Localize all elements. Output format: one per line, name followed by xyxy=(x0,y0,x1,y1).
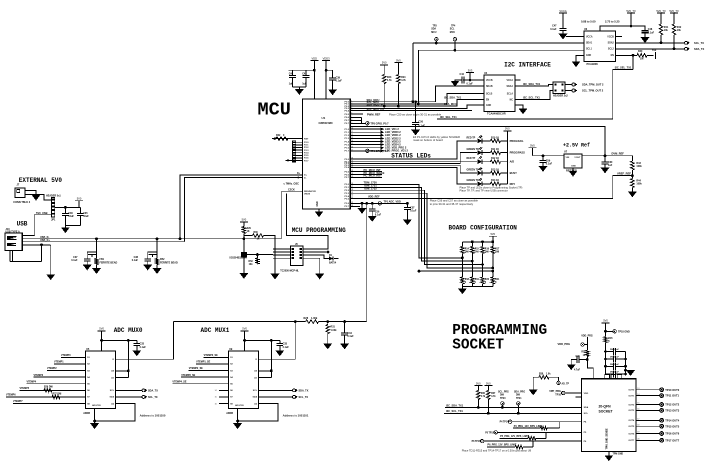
svg-text:TP12 OUT2: TP12 OUT2 xyxy=(665,403,679,407)
svg-text:OUT1: OUT1 xyxy=(628,395,635,397)
junction xyxy=(179,237,182,240)
junction xyxy=(365,202,368,205)
wire cap rail bottom xyxy=(293,86,307,88)
svg-text:SCL_MCU_PU: SCL_MCU_PU xyxy=(367,107,385,111)
svg-text:SCL_TX: SCL_TX xyxy=(694,41,704,45)
svg-text:0.1uF: 0.1uF xyxy=(347,335,354,338)
wire OUT3 xyxy=(636,409,659,411)
wire USB VBUS xyxy=(22,235,35,237)
wire xyxy=(397,84,399,107)
svg-text:R15: R15 xyxy=(475,248,480,250)
svg-text:VTEMP3: VTEMP3 xyxy=(34,374,44,377)
wire xyxy=(482,152,490,154)
wire xyxy=(86,252,88,259)
wire LED row4 feed xyxy=(350,165,477,173)
svg-text:P3.6: P3.6 xyxy=(345,203,350,205)
wire GND pin xyxy=(237,409,239,424)
resistor R42 xyxy=(672,24,676,35)
svg-text:P3.7: P3.7 xyxy=(345,206,350,208)
wire xyxy=(523,446,533,448)
svg-text:to pins 30-31 and 35-37 respec: to pins 30-31 and 35-37 respectively xyxy=(430,202,474,206)
wire xyxy=(64,215,66,225)
wire xyxy=(547,427,560,429)
svg-text:C40: C40 xyxy=(289,72,294,75)
wire xyxy=(631,170,633,176)
capacitor C37 xyxy=(84,259,91,261)
wire OUT0 xyxy=(636,389,659,391)
junction xyxy=(604,350,607,353)
svg-text:VBUS: VBUS xyxy=(304,193,311,195)
wire xyxy=(660,35,662,43)
ground xyxy=(368,216,376,221)
wire VTEMP6 xyxy=(6,396,86,398)
svg-text:9: 9 xyxy=(351,122,352,124)
junction xyxy=(604,154,607,157)
svg-text:SDA: SDA xyxy=(109,396,114,399)
wire xyxy=(406,209,408,219)
svg-text:SCL2: SCL2 xyxy=(608,49,615,51)
svg-text:TP16 OUT6: TP16 OUT6 xyxy=(665,432,679,436)
svg-text:5V0: 5V0 xyxy=(242,327,247,331)
junction xyxy=(327,251,330,254)
wire ADC_VREF vertical xyxy=(366,203,368,321)
wire VTEMP5 xyxy=(20,389,86,391)
level shifter U6 body xyxy=(584,31,616,62)
LED D6 xyxy=(478,178,483,186)
svg-text:c 7MHz_OSC: c 7MHz_OSC xyxy=(284,183,300,186)
resistor R17 xyxy=(491,247,495,254)
svg-text:RDY: RDY xyxy=(510,182,516,186)
wire U7 VOUT xyxy=(582,155,632,157)
svg-text:SCL_PRG: SCL_PRG xyxy=(498,391,509,393)
wire VTEMP1 xyxy=(54,363,86,365)
wire A0 xyxy=(116,370,129,372)
wire xyxy=(292,78,294,87)
junction xyxy=(243,339,246,342)
wire to C46 xyxy=(579,359,588,361)
test point TP21 xyxy=(517,402,520,405)
svg-text:25: 25 xyxy=(351,176,353,178)
junction xyxy=(406,202,409,205)
capacitor C60 xyxy=(602,162,609,164)
off-page SDA_TX xyxy=(293,389,298,392)
junction xyxy=(673,47,676,50)
wire xyxy=(371,211,373,216)
svg-text:5V0: 5V0 xyxy=(490,232,495,236)
wire VREF_REF xyxy=(350,176,632,199)
svg-text:1K: 1K xyxy=(247,231,250,233)
wire xyxy=(562,30,564,34)
wire xyxy=(487,446,515,448)
U9 pin names xyxy=(230,357,258,407)
svg-text:27: 27 xyxy=(351,186,353,188)
svg-text:R29: R29 xyxy=(247,228,252,230)
svg-text:DNI 0.1uF: DNI 0.1uF xyxy=(610,349,620,351)
svg-text:DNI: DNI xyxy=(500,395,504,397)
wire to cap xyxy=(245,339,280,341)
wire xyxy=(660,17,662,24)
wire EN down xyxy=(632,55,634,69)
svg-text:8: 8 xyxy=(351,119,352,121)
svg-text:ADG728: ADG728 xyxy=(92,404,101,407)
wire xyxy=(542,162,544,166)
svg-text:TCA9406DCUR: TCA9406DCUR xyxy=(487,112,506,116)
svg-text:C44: C44 xyxy=(460,73,465,76)
resistor R32 xyxy=(256,258,260,264)
off-page SDA_TPM_OUT xyxy=(572,83,577,86)
ground xyxy=(47,275,55,280)
wire ladder pin xyxy=(296,149,303,151)
svg-text:FERRITE BEAD: FERRITE BEAD xyxy=(100,261,118,264)
svg-text:16: 16 xyxy=(637,409,639,411)
wire shield riser xyxy=(41,245,43,262)
wire cap rail xyxy=(55,206,81,208)
wire xyxy=(156,252,158,259)
svg-text:SOCKET: SOCKET xyxy=(599,410,614,414)
junction xyxy=(471,240,474,243)
junction xyxy=(487,412,490,415)
wire USB D+ rail xyxy=(22,241,184,243)
wire xyxy=(517,405,519,413)
svg-text:0.1uF: 0.1uF xyxy=(375,214,382,217)
svg-text:14: 14 xyxy=(637,394,639,396)
svg-text:P1.0: P1.0 xyxy=(345,129,350,131)
wire xyxy=(65,224,80,226)
wire xyxy=(469,77,471,81)
svg-text:VTEMP4_SE: VTEMP4_SE xyxy=(172,380,186,383)
wire shield xyxy=(12,250,14,261)
svg-text:P3.5: P3.5 xyxy=(345,198,350,200)
svg-text:SDA_MCU: SDA_MCU xyxy=(444,102,457,106)
LED D5 xyxy=(478,168,483,176)
junction xyxy=(397,105,400,108)
wire xyxy=(482,161,490,163)
off-page SCL_TPM_OUT xyxy=(572,89,577,92)
svg-text:SDA_PRG: SDA_PRG xyxy=(514,390,525,393)
svg-text:OUT0: OUT0 xyxy=(628,390,635,392)
test point TP14 xyxy=(508,420,511,423)
wire U6 EN xyxy=(616,54,637,56)
svg-text:17: 17 xyxy=(637,419,639,421)
bus entry LED_VDD1 xyxy=(381,134,385,137)
junction xyxy=(469,79,472,82)
junction xyxy=(418,270,421,273)
wire xyxy=(461,284,463,286)
wire board config net xyxy=(350,190,482,264)
wire xyxy=(303,258,320,274)
svg-text:TPM_GND_SENSE: TPM_GND_SENSE xyxy=(606,428,609,450)
ground xyxy=(559,34,567,39)
wire xyxy=(606,351,614,353)
wire xyxy=(96,239,98,252)
diode D1 xyxy=(329,256,333,260)
capacitor C44 xyxy=(462,77,464,84)
wire MUX1 out xyxy=(259,322,296,360)
svg-text:MCU: MCU xyxy=(431,32,437,34)
junction xyxy=(624,369,627,372)
svg-text:0.1uF: 0.1uF xyxy=(467,83,474,86)
wire board config net xyxy=(350,187,472,261)
svg-text:P4_PRG_12V_BPS_LIMIT: P4_PRG_12V_BPS_LIMIT xyxy=(514,425,543,428)
test point OUT6 xyxy=(660,432,664,436)
svg-text:EN: EN xyxy=(611,55,615,57)
wire stub PC_MCU_RST xyxy=(350,176,382,178)
wire stub PWM_REF xyxy=(350,113,363,115)
svg-text:R16: R16 xyxy=(485,248,490,250)
resistor P6 limit xyxy=(515,445,523,449)
svg-text:20-QFN: 20-QFN xyxy=(599,405,612,409)
svg-text:5V0: 5V0 xyxy=(603,319,608,323)
wire xyxy=(531,152,533,156)
wire xyxy=(461,286,463,288)
svg-text:P6_PRG_12V_BPS_LIMIT: P6_PRG_12V_BPS_LIMIT xyxy=(488,444,517,447)
wire U7 VIN xyxy=(532,155,564,157)
wire I2C_SDA_PRG xyxy=(445,406,582,408)
off-page SCL_TX xyxy=(685,41,690,44)
svg-text:I2C_SEL_TX1: I2C_SEL_TX1 xyxy=(615,65,632,69)
wire stub LED_VDD4 xyxy=(350,144,380,146)
svg-text:OUT5: OUT5 xyxy=(628,426,635,428)
wire xyxy=(471,254,473,278)
svg-text:P1.4: P1.4 xyxy=(345,140,350,143)
wire Q1 out xyxy=(248,254,273,256)
U4 pin names xyxy=(486,79,513,107)
svg-text:I2C_SDA_TX1: I2C_SDA_TX1 xyxy=(523,82,541,86)
wire xyxy=(616,373,626,375)
junction xyxy=(95,237,98,240)
test point TP10 xyxy=(562,391,565,394)
wire SDA_TX xyxy=(616,48,685,50)
wire xyxy=(492,242,494,247)
svg-text:5V0_TX: 5V0_TX xyxy=(669,9,679,13)
connector pin xyxy=(293,147,296,149)
wire I2C_SCL_TX1 xyxy=(515,91,553,100)
svg-text:SCLB: SCLB xyxy=(486,93,493,95)
junction xyxy=(481,240,484,243)
svg-text:TPM GND: TPM GND xyxy=(613,454,624,456)
svg-text:16: 16 xyxy=(215,403,217,405)
svg-text:0.1uF: 0.1uF xyxy=(648,32,655,35)
svg-text:VTEMP2: VTEMP2 xyxy=(47,367,57,370)
svg-text:32: 32 xyxy=(351,202,353,204)
svg-text:P2.4: P2.4 xyxy=(304,152,309,155)
svg-text:P3.0: P3.0 xyxy=(345,184,350,186)
svg-text:R35: R35 xyxy=(581,352,586,354)
wire SDA_MCU riser xyxy=(412,43,414,102)
power 5V0 xyxy=(240,218,248,226)
ground xyxy=(153,268,161,273)
svg-text:I2C_SEL_TX1: I2C_SEL_TX1 xyxy=(440,115,457,119)
voltage reference U7 body xyxy=(564,154,582,168)
resistor R40 xyxy=(637,54,647,58)
wire stub P0.4 xyxy=(350,110,472,112)
svg-text:R13 1K: R13 1K xyxy=(491,168,499,171)
wire A1 xyxy=(259,377,272,379)
ground xyxy=(133,351,141,356)
svg-text:SDA_TX: SDA_TX xyxy=(299,389,309,392)
bus entry LED_VDD3 xyxy=(381,140,385,143)
wire xyxy=(501,405,503,407)
capacitor C50 DNI xyxy=(614,363,616,370)
ground xyxy=(412,130,420,135)
wire xyxy=(532,377,534,390)
wire DNI right rail xyxy=(625,352,627,375)
bus entry LED_PROG_VD1 xyxy=(381,149,385,152)
ground xyxy=(451,81,459,86)
wire xyxy=(565,90,572,92)
wire xyxy=(565,84,572,86)
wire xyxy=(362,122,366,124)
svg-text:R28: R28 xyxy=(304,317,309,320)
wire ladder out xyxy=(285,159,292,161)
wire VTEMP4 xyxy=(27,383,86,385)
wire xyxy=(647,54,654,56)
svg-text:VTEMP0: VTEMP0 xyxy=(61,354,71,357)
svg-text:1uF: 1uF xyxy=(608,164,613,167)
svg-text:24: 24 xyxy=(351,173,353,175)
capacitor C38 xyxy=(144,259,151,261)
svg-text:R45: R45 xyxy=(608,337,613,340)
resistor R37 xyxy=(487,391,491,400)
wire VTEMP7 xyxy=(13,403,86,405)
resistor R23 xyxy=(382,75,386,84)
wire VDD3 to U1 xyxy=(325,65,327,99)
svg-text:5V0: 5V0 xyxy=(77,197,82,201)
svg-text:C8051F380: C8051F380 xyxy=(319,121,334,125)
wire xyxy=(344,322,346,333)
svg-text:ADDR: ADDR xyxy=(226,412,233,415)
wire xyxy=(584,344,587,346)
junction xyxy=(630,25,633,28)
svg-text:15: 15 xyxy=(351,143,353,145)
wire xyxy=(492,254,494,278)
wire xyxy=(64,207,66,213)
svg-text:16: 16 xyxy=(351,146,353,148)
capacitor C35 xyxy=(62,213,69,215)
test point TP9 xyxy=(581,343,584,346)
svg-text:+2.5V Ref: +2.5V Ref xyxy=(563,143,590,149)
connector pin xyxy=(292,248,294,250)
power 5V0_TX xyxy=(669,9,679,17)
svg-text:10uF: 10uF xyxy=(68,215,74,218)
svg-text:31: 31 xyxy=(351,197,353,199)
svg-text:5V0: 5V0 xyxy=(486,381,491,385)
junction xyxy=(325,69,328,72)
wire xyxy=(147,252,149,259)
connector J10 USB body xyxy=(5,233,22,250)
svg-text:mask on bottom of board: mask on bottom of board xyxy=(413,138,443,142)
junction xyxy=(604,365,607,368)
wire xyxy=(487,400,489,414)
ground xyxy=(144,265,152,270)
svg-text:0.1uF: 0.1uF xyxy=(140,346,147,349)
svg-text:28: 28 xyxy=(351,189,353,191)
wire GND pin xyxy=(94,409,96,424)
resistor R45 xyxy=(604,337,608,343)
svg-text:4.7k: 4.7k xyxy=(401,79,406,82)
test point OUT5 xyxy=(660,424,664,428)
wire xyxy=(644,33,646,38)
wire stub U4 VCCA xyxy=(515,79,521,81)
resistor R14 xyxy=(461,247,465,254)
wire TP4 stem xyxy=(454,41,456,50)
capacitor C57 xyxy=(404,207,411,209)
wire xyxy=(482,172,490,174)
wire U8 GND xyxy=(608,452,610,456)
junction xyxy=(604,358,607,361)
bus entry LED_VD1 xyxy=(381,127,385,130)
wire xyxy=(631,176,633,179)
wire I2C_SDA_TX1 xyxy=(515,85,553,87)
wire ladder pin xyxy=(296,157,303,159)
svg-text:VCCA: VCCA xyxy=(506,79,513,82)
wire xyxy=(605,327,607,337)
connector JP1 ladder xyxy=(52,198,55,218)
test point OUT3 xyxy=(660,409,664,413)
wire stub xyxy=(350,116,361,118)
wire DNI left rail xyxy=(605,343,607,374)
svg-text:MCU: MCU xyxy=(450,32,456,34)
ground xyxy=(240,273,248,278)
svg-text:SOCKET: SOCKET xyxy=(452,337,504,353)
bus entry LED_VDD2 xyxy=(381,137,385,140)
wire LED anode rail xyxy=(506,141,508,184)
svg-text:C50: C50 xyxy=(418,121,423,124)
wire xyxy=(471,242,473,247)
svg-text:MCU PROGRAMMING: MCU PROGRAMMING xyxy=(292,227,346,234)
connector pin xyxy=(293,154,296,156)
ground xyxy=(641,37,649,42)
svg-text:17: 17 xyxy=(351,149,353,151)
wire SCL_MCU bus xyxy=(350,94,484,104)
svg-text:R14 1K: R14 1K xyxy=(491,179,499,182)
svg-text:20: 20 xyxy=(637,439,639,441)
wire address tie xyxy=(127,340,129,377)
svg-text:7: 7 xyxy=(351,116,352,118)
svg-text:1K: 1K xyxy=(257,239,260,241)
svg-text:ADC MUX0: ADC MUX0 xyxy=(114,327,143,334)
svg-text:FERRITE BEAD: FERRITE BEAD xyxy=(160,261,178,264)
ground xyxy=(234,423,242,428)
svg-text:Address is 1001101: Address is 1001101 xyxy=(283,413,309,417)
junction xyxy=(326,320,329,323)
connector pin xyxy=(292,257,294,259)
wire xyxy=(96,265,98,269)
wire xyxy=(571,360,577,365)
wire stub AB xyxy=(576,396,582,398)
wire xyxy=(334,258,339,260)
svg-text:23: 23 xyxy=(351,170,353,172)
wire shield rail xyxy=(10,261,42,263)
capacitor xyxy=(276,344,283,346)
power stub xyxy=(148,255,156,258)
svg-text:VTEMP5: VTEMP5 xyxy=(20,387,30,390)
bus entry LED_VDD4 xyxy=(381,143,385,146)
wire xyxy=(79,215,81,225)
wire header pin xyxy=(273,254,291,256)
svg-text:R14: R14 xyxy=(465,247,470,250)
junction xyxy=(294,320,297,323)
capacitor C48 xyxy=(642,31,649,33)
wire LED row1 feed xyxy=(350,141,477,159)
wire U6 VCCA xyxy=(566,36,584,38)
wire xyxy=(533,376,539,378)
wire ladder pin xyxy=(296,154,303,156)
wire xyxy=(305,78,307,87)
svg-text:JP1: JP1 xyxy=(51,219,56,222)
svg-text:5: 5 xyxy=(351,109,352,111)
connector pin xyxy=(300,251,302,253)
